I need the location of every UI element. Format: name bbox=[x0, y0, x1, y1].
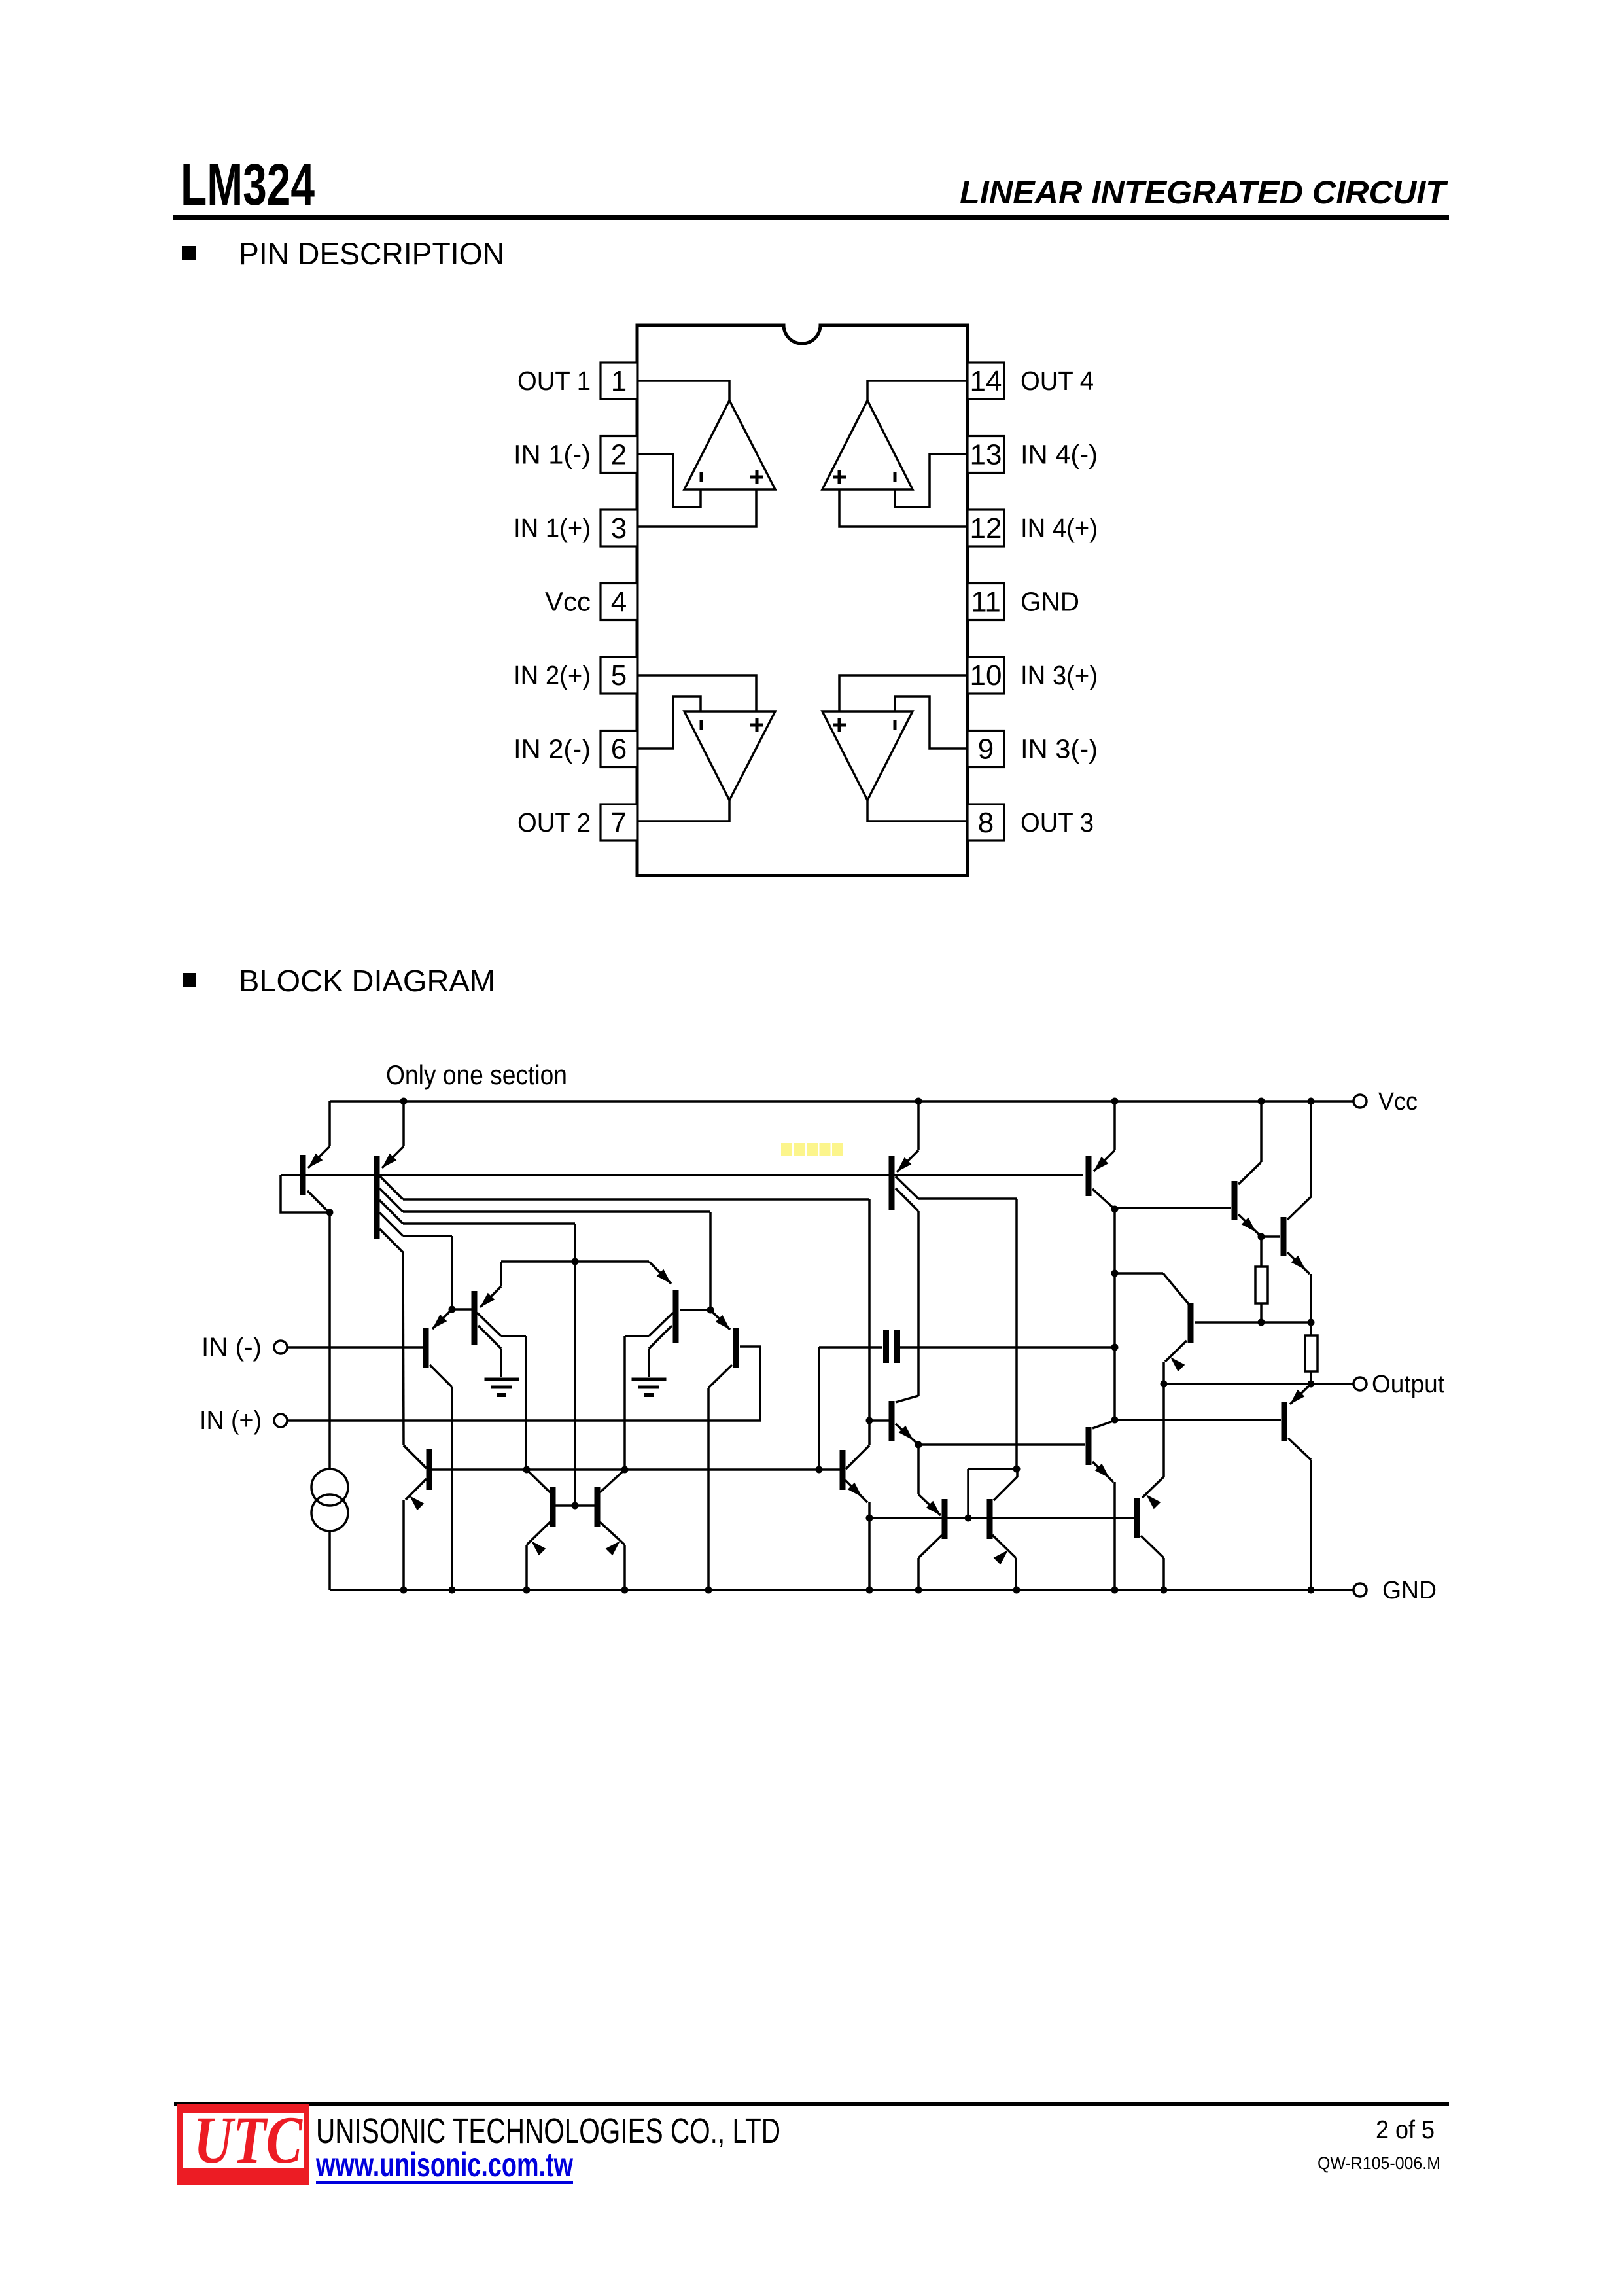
svg-text:UTC: UTC bbox=[194, 2103, 303, 2178]
svg-text:Vcc: Vcc bbox=[1378, 1088, 1418, 1116]
svg-text:1: 1 bbox=[611, 365, 627, 397]
svg-text:13: 13 bbox=[970, 439, 1002, 471]
svg-text:LINEAR INTEGRATED CIRCUIT: LINEAR INTEGRATED CIRCUIT bbox=[960, 174, 1448, 211]
svg-text:IN 4(-): IN 4(-) bbox=[1021, 440, 1098, 470]
svg-text:7: 7 bbox=[611, 807, 627, 839]
svg-text:GND: GND bbox=[1382, 1577, 1437, 1604]
svg-text:Output: Output bbox=[1372, 1371, 1444, 1398]
svg-text:OUT 1: OUT 1 bbox=[517, 366, 591, 396]
svg-text:OUT 4: OUT 4 bbox=[1021, 366, 1094, 396]
svg-text:www.unisonic.com.tw: www.unisonic.com.tw bbox=[315, 2146, 573, 2184]
svg-text:OUT 2: OUT 2 bbox=[517, 807, 591, 838]
svg-text:OUT 3: OUT 3 bbox=[1021, 807, 1094, 838]
svg-text:IN 2(+): IN 2(+) bbox=[514, 660, 591, 690]
svg-text:BLOCK DIAGRAM: BLOCK DIAGRAM bbox=[239, 964, 495, 998]
svg-text:QW-R105-006.M: QW-R105-006.M bbox=[1318, 2153, 1440, 2173]
svg-text:IN 4(+): IN 4(+) bbox=[1021, 513, 1098, 543]
svg-text:10: 10 bbox=[970, 660, 1002, 692]
svg-text:4: 4 bbox=[611, 586, 627, 618]
svg-text:UNISONIC TECHNOLOGIES CO., LTD: UNISONIC TECHNOLOGIES CO., LTD bbox=[316, 2111, 780, 2151]
svg-text:IN 1(+): IN 1(+) bbox=[514, 513, 591, 543]
svg-text:6: 6 bbox=[611, 733, 627, 766]
svg-text:2 of 5: 2 of 5 bbox=[1376, 2116, 1435, 2144]
svg-text:IN (-): IN (-) bbox=[201, 1333, 262, 1362]
svg-text:Only one section: Only one section bbox=[386, 1059, 567, 1090]
svg-text:PIN DESCRIPTION: PIN DESCRIPTION bbox=[239, 236, 504, 271]
svg-text:IN (+): IN (+) bbox=[200, 1406, 262, 1435]
svg-text:LM324: LM324 bbox=[181, 152, 315, 218]
svg-text:3: 3 bbox=[611, 512, 627, 544]
svg-text:5: 5 bbox=[611, 660, 627, 692]
svg-text:14: 14 bbox=[970, 365, 1002, 397]
svg-text:Vcc: Vcc bbox=[545, 587, 591, 617]
svg-text:8: 8 bbox=[978, 807, 994, 839]
svg-text:9: 9 bbox=[978, 733, 994, 766]
svg-text:IN 1(-): IN 1(-) bbox=[514, 440, 591, 470]
svg-text:IN 2(-): IN 2(-) bbox=[514, 734, 591, 764]
svg-text:IN 3(+): IN 3(+) bbox=[1021, 660, 1098, 690]
svg-text:GND: GND bbox=[1021, 587, 1079, 617]
svg-text:12: 12 bbox=[970, 512, 1002, 544]
svg-text:IN 3(-): IN 3(-) bbox=[1021, 734, 1098, 764]
svg-text:2: 2 bbox=[611, 439, 627, 471]
svg-text:11: 11 bbox=[971, 586, 1001, 618]
